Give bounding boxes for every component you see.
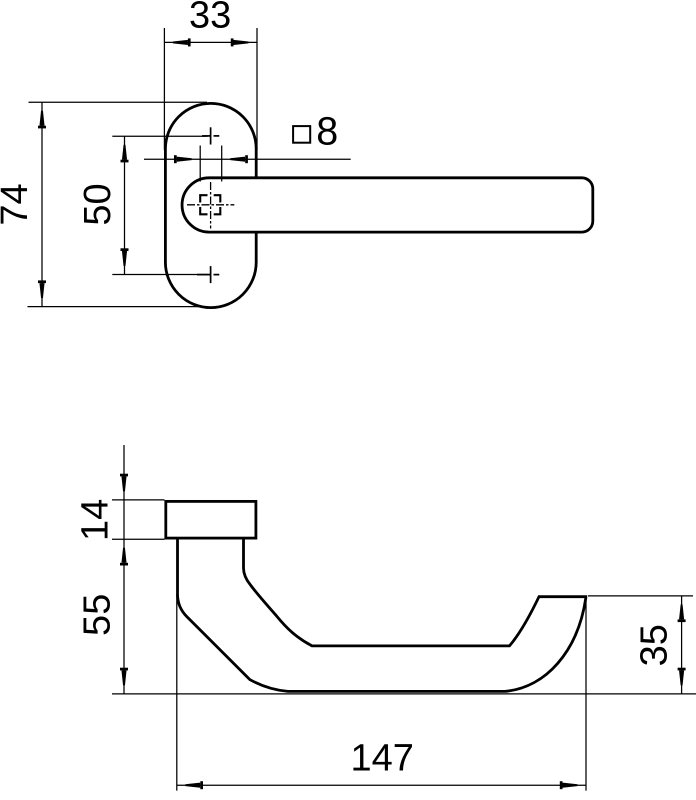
svg-text:74: 74 (0, 183, 36, 225)
svg-text:35: 35 (634, 624, 676, 666)
svg-text:55: 55 (77, 594, 119, 636)
svg-text:33: 33 (189, 0, 231, 37)
svg-text:147: 147 (350, 738, 413, 780)
svg-text:14: 14 (75, 499, 117, 541)
svg-text:8: 8 (316, 110, 338, 154)
svg-text:50: 50 (77, 183, 119, 225)
